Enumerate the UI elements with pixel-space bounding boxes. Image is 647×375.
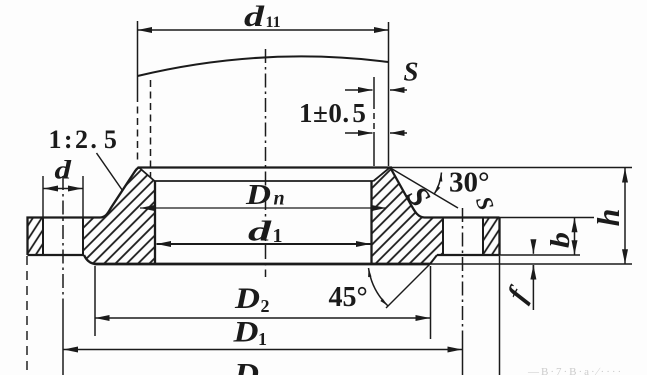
svg-text:2: 2 xyxy=(261,296,270,316)
svg-text:1: 1 xyxy=(258,329,267,349)
svg-text:S: S xyxy=(404,57,419,87)
svg-text:d: d xyxy=(55,156,73,185)
svg-text:D: D xyxy=(234,282,260,315)
svg-text:D: D xyxy=(232,316,258,349)
svg-text:45°: 45° xyxy=(329,282,368,313)
svg-text:f: f xyxy=(501,280,535,307)
svg-text:1:2. 5: 1:2. 5 xyxy=(49,125,120,154)
svg-text:D: D xyxy=(245,179,271,211)
svg-text:30°: 30° xyxy=(449,167,490,199)
svg-text:1: 1 xyxy=(273,225,283,247)
svg-text:h: h xyxy=(590,209,626,227)
svg-text:n: n xyxy=(274,188,285,210)
svg-text:—B·7·B·a·∕····: —B·7·B·a·∕···· xyxy=(527,366,623,375)
svg-text:11: 11 xyxy=(266,14,281,31)
svg-text:D: D xyxy=(233,356,259,375)
svg-text:d: d xyxy=(248,216,272,248)
svg-text:1±0. 5: 1±0. 5 xyxy=(299,98,366,128)
svg-text:b: b xyxy=(545,232,575,248)
svg-text:d: d xyxy=(244,0,265,33)
